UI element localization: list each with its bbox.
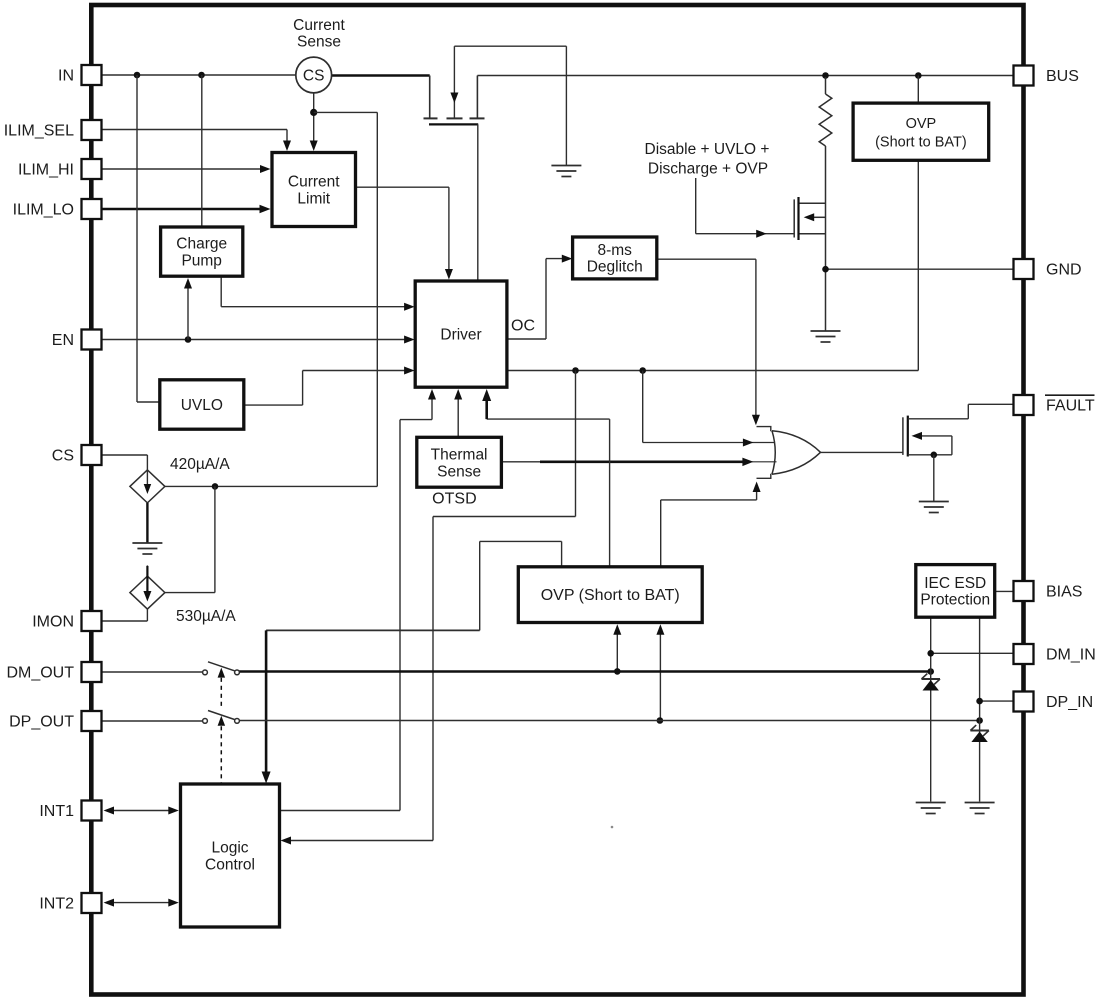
svg-text:420µA/A: 420µA/A [170, 456, 230, 473]
svg-text:Charge: Charge [176, 236, 227, 253]
svg-text:8-ms: 8-ms [597, 242, 632, 259]
svg-text:DP_OUT: DP_OUT [9, 714, 74, 731]
svg-text:ILIM_HI: ILIM_HI [18, 162, 74, 179]
svg-text:Limit: Limit [297, 191, 330, 208]
svg-text:Discharge + OVP: Discharge + OVP [648, 161, 768, 178]
svg-text:IN: IN [58, 68, 74, 85]
svg-text:Thermal: Thermal [431, 446, 488, 463]
svg-text:DM_OUT: DM_OUT [6, 665, 74, 682]
svg-text:(Short to BAT): (Short to BAT) [875, 134, 967, 150]
svg-text:IMON: IMON [32, 614, 74, 631]
svg-text:OVP (Short to BAT): OVP (Short to BAT) [541, 587, 680, 604]
svg-text:Current: Current [288, 174, 340, 191]
svg-text:EN: EN [52, 332, 74, 349]
svg-text:Disable + UVLO +: Disable + UVLO + [645, 141, 770, 158]
svg-text:OTSD: OTSD [432, 491, 476, 508]
svg-text:ILIM_LO: ILIM_LO [13, 202, 74, 219]
svg-text:BIAS: BIAS [1046, 584, 1082, 601]
svg-text:Protection: Protection [920, 592, 990, 609]
svg-text:IEC ESD: IEC ESD [924, 575, 986, 592]
svg-text:INT1: INT1 [39, 803, 74, 820]
svg-text:GND: GND [1046, 262, 1082, 279]
svg-text:530µA/A: 530µA/A [176, 608, 236, 625]
svg-text:Deglitch: Deglitch [587, 259, 643, 276]
svg-text:CS: CS [52, 448, 74, 465]
svg-text:Pump: Pump [181, 253, 222, 270]
svg-text:CS: CS [303, 68, 325, 85]
svg-text:OC: OC [511, 318, 535, 335]
svg-text:Logic: Logic [211, 840, 248, 857]
svg-text:OVP: OVP [906, 116, 937, 132]
svg-text:FAULT: FAULT [1046, 398, 1095, 415]
svg-text:DM_IN: DM_IN [1046, 647, 1096, 664]
svg-text:ILIM_SEL: ILIM_SEL [4, 123, 74, 140]
svg-text:UVLO: UVLO [181, 397, 223, 414]
svg-text:Sense: Sense [437, 463, 481, 480]
svg-text:DP_IN: DP_IN [1046, 694, 1093, 711]
svg-text:Driver: Driver [440, 327, 481, 344]
svg-text:Control: Control [205, 857, 255, 874]
svg-text:Current: Current [293, 17, 345, 34]
svg-text:BUS: BUS [1046, 68, 1079, 85]
svg-text:INT2: INT2 [39, 896, 74, 913]
svg-text:Sense: Sense [297, 33, 341, 50]
